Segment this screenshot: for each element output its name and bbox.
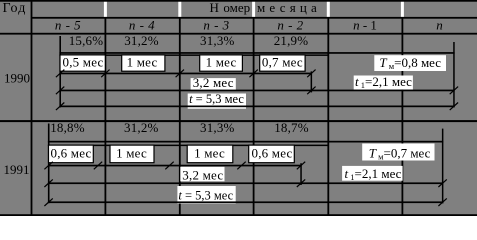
svg-text:t = 5,3 мес: t = 5,3 мес: [189, 92, 244, 106]
tick dim3 at right 1990: [450, 103, 458, 111]
svg-text:Год: Год: [3, 1, 27, 16]
label box t1=2,1 мес 1990: [354, 76, 413, 90]
bar box 1 мес (n-3) 1991: [187, 145, 233, 163]
bar box 1 мес (n-4) 1991: [110, 145, 154, 163]
svg-text:n - 3: n - 3: [203, 18, 229, 33]
column line n-2/n-1: [327, 18, 329, 217]
svg-text:3,2 мес: 3,2 мес: [182, 167, 223, 182]
label box t=5,3 мес 1991: [177, 186, 235, 204]
svg-text:месяца: месяца: [257, 0, 321, 15]
svg-text:18,8%: 18,8%: [50, 120, 85, 135]
bar box 1 мес (n-4) 1990: [122, 55, 165, 71]
tick dim1 at start 1991: [44, 162, 52, 170]
svg-text:31,2%: 31,2%: [124, 33, 159, 48]
tick dim3 at right 1991: [438, 198, 446, 206]
svg-text:15,6%: 15,6%: [69, 33, 104, 48]
tick dim1 at bars end 1991: [297, 162, 305, 170]
label box t1=2,1 мес 1991: [342, 166, 403, 181]
bar box 0,7 мес 1990: [260, 55, 305, 71]
dim line months 1990: [59, 73, 312, 75]
svg-text:21,9%: 21,9%: [274, 33, 309, 48]
svg-text:1991: 1991: [4, 162, 30, 177]
dim line t=5,3 1990: [59, 106, 454, 108]
bars-end vertical line 1990: [311, 71, 313, 92]
tick dim2 at right 1990: [450, 87, 458, 95]
label box Тм=0,7 мес 1991: [362, 144, 434, 161]
bar box 0,6 мес (2) 1991: [249, 145, 295, 163]
svg-text:1 мес: 1 мес: [194, 145, 225, 160]
white tick row1 at n-4/n-3: [178, 2, 181, 17]
svg-text:1 мес: 1 мес: [206, 55, 237, 70]
start vertical line 1991: [48, 124, 50, 204]
bar box 0,5 мес 1990: [60, 55, 105, 71]
tick dim1 at start 1990: [56, 70, 64, 78]
table line under header row 1: [31, 17, 477, 19]
dim line 3,2/2,1 1990: [59, 90, 454, 92]
dim line 3,2/2,1 1991: [48, 182, 443, 184]
horizontal line A 1991: [48, 141, 443, 143]
dim line t=5,3 1991: [48, 201, 443, 203]
tick dim3 at start 1990: [56, 103, 64, 111]
svg-text:1 мес: 1 мес: [127, 55, 158, 70]
horizontal line B 1990: [59, 54, 328, 56]
tick dim2 at start 1990: [56, 87, 64, 95]
dim line months 1991: [48, 165, 301, 167]
svg-text:31,3%: 31,3%: [200, 120, 235, 135]
horizontal line A 1990: [59, 52, 454, 54]
svg-text:31,3%: 31,3%: [200, 33, 235, 48]
white tick row1 at n-2/n-1: [327, 2, 330, 17]
tick dim2 at bars end 1991: [297, 179, 305, 187]
tick dim2 at right 1991: [438, 179, 446, 187]
svg-text:n - 1: n - 1: [353, 18, 377, 33]
bars-end vertical line 1991: [300, 163, 302, 185]
white tick row1 at n-5/n-4: [104, 2, 107, 17]
label box 3,2 мес 1991: [180, 167, 224, 182]
tick dim1 at n-4 end 1990: [176, 70, 184, 78]
tick dim1 at n-3 end 1990: [249, 70, 257, 78]
svg-text:31,2%: 31,2%: [124, 120, 159, 135]
svg-text:n - 5: n - 5: [55, 18, 81, 33]
tick dim2 at bars end 1990: [307, 87, 315, 95]
right vertical line 1991: [442, 129, 444, 204]
tick dim1 gap1 1991: [94, 162, 102, 170]
tick dim3 at start 1991: [44, 198, 52, 206]
column line n-4/n-3: [179, 18, 181, 217]
tick dim2 at start 1991: [44, 179, 52, 187]
svg-text:0,7 мес: 0,7 мес: [262, 55, 303, 70]
svg-text:Номер: Номер: [210, 0, 251, 15]
svg-text:0,6 мес: 0,6 мес: [51, 145, 92, 160]
right vertical line 1990: [453, 42, 455, 107]
table line between 1990 and 1991: [0, 120, 477, 122]
label box 3,2 мес 1990: [191, 78, 236, 90]
svg-text:n: n: [436, 18, 443, 33]
svg-text:1990: 1990: [4, 70, 30, 85]
label box Тм=0,8 мес 1990: [374, 55, 446, 71]
tick dim1 gap2 1991: [165, 162, 173, 170]
svg-text:0,5 мес: 0,5 мес: [63, 55, 104, 70]
column line n-5/n-4: [105, 18, 107, 217]
horizontal line B 1991: [48, 145, 328, 147]
column line n-1/n: [402, 18, 404, 217]
svg-text:n - 4: n - 4: [129, 18, 155, 33]
label box t=5,3 мес 1990: [188, 94, 246, 109]
column line n-3/n-2: [253, 18, 255, 217]
table bottom border: [0, 214, 477, 216]
tick dim1 gap3 1991: [237, 162, 245, 170]
svg-text:0,6 мес: 0,6 мес: [252, 145, 293, 160]
white tick row1 at n-1/n: [401, 2, 404, 17]
column line Год: [31, 0, 33, 216]
tick dim1 at bars end 1990: [307, 70, 315, 78]
svg-text:n - 2: n - 2: [277, 18, 303, 33]
table line under header row 2: [0, 33, 477, 35]
svg-text:3,2 мес: 3,2 мес: [193, 75, 234, 90]
svg-text:18,7%: 18,7%: [274, 120, 309, 135]
svg-text:1 мес: 1 мес: [116, 145, 147, 160]
table top border: [0, 0, 477, 2]
bar box 0,6 мес 1991: [49, 145, 94, 163]
tick dim1 at n-5 end 1990: [101, 70, 109, 78]
bar box 1 мес (n-3) 1990: [200, 55, 243, 71]
svg-text:t = 5,3 мес: t = 5,3 мес: [178, 189, 233, 203]
white tick row1 at n-3/n-2: [252, 2, 255, 17]
start vertical line 1990: [59, 36, 61, 107]
